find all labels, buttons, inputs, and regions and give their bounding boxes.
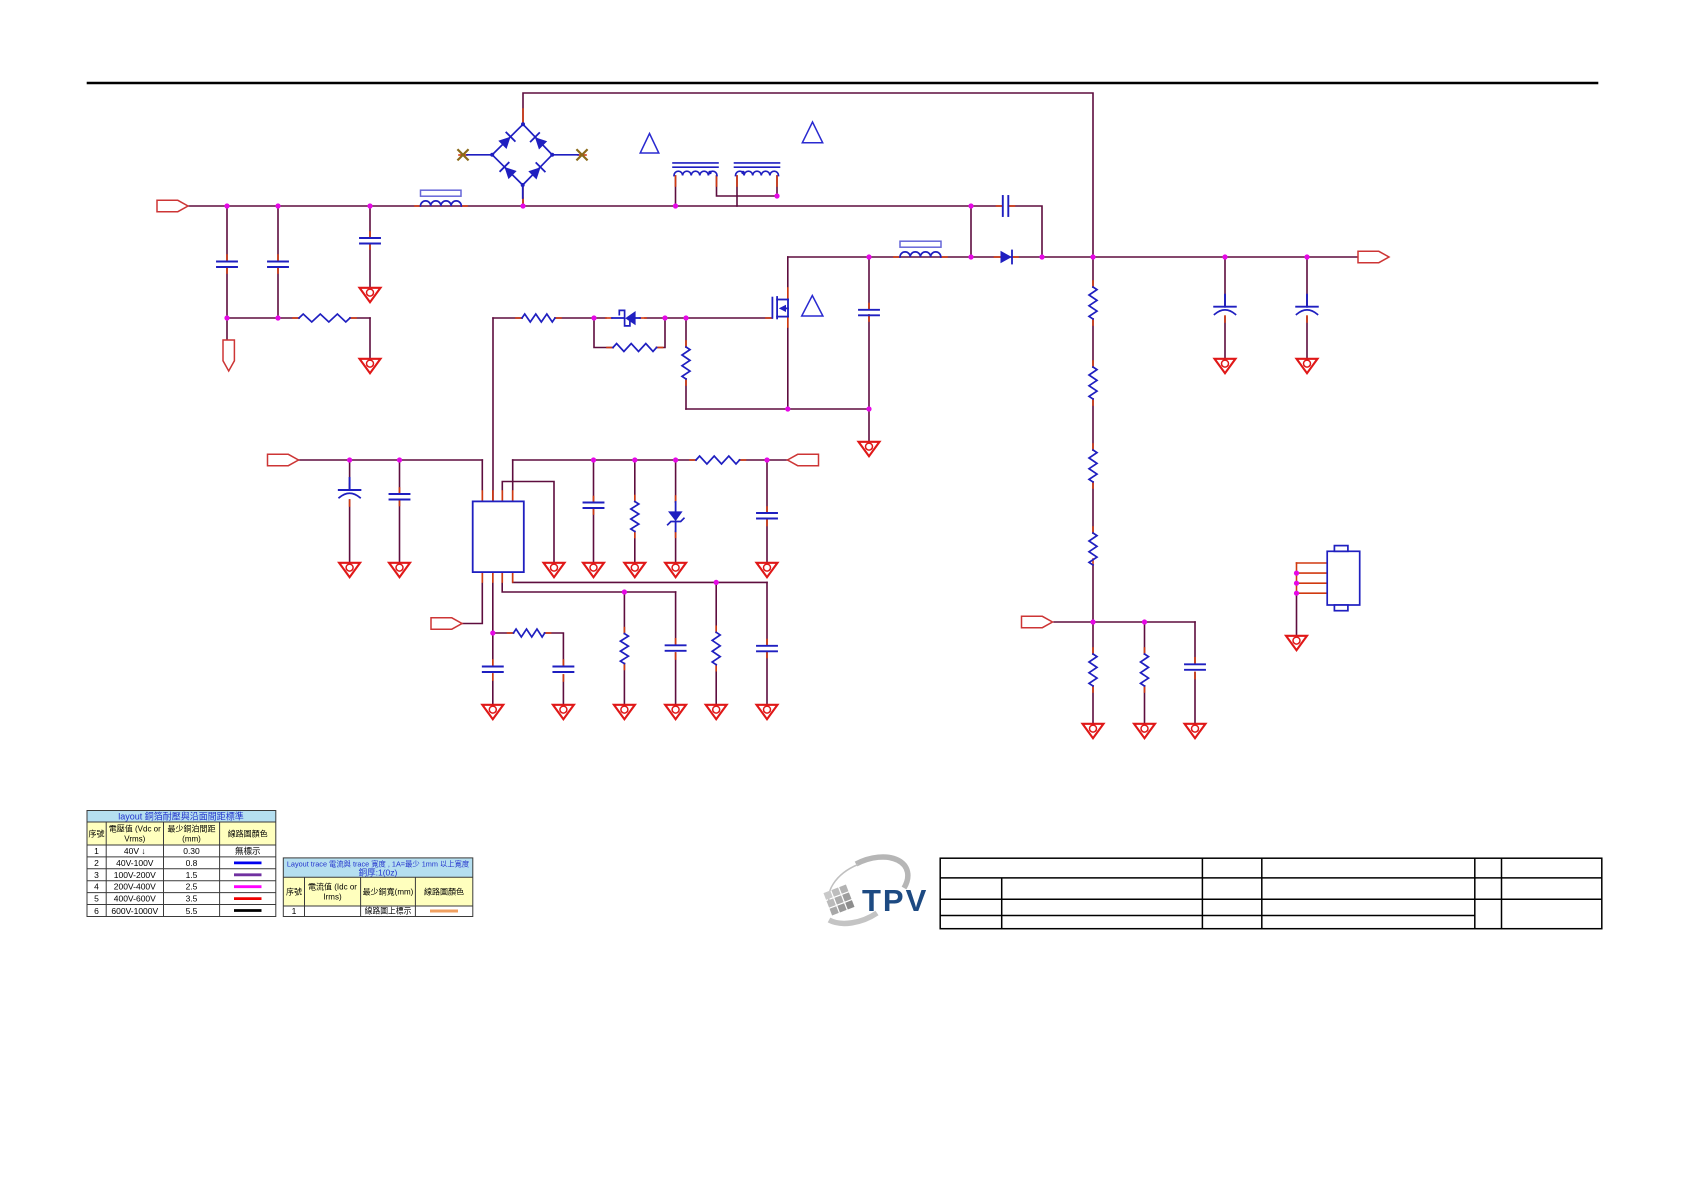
svg-text:Vrms): Vrms) [124,835,145,844]
capacitor C21 out [1214,295,1236,315]
pin stubs IC [481,491,483,501]
wire cap C11 legs [766,582,768,645]
logo swoosh thin [829,865,858,907]
X mark right [577,150,587,160]
ground vcc row 2 [389,563,410,577]
wire comp RC row [493,632,514,634]
connector J1 [1327,546,1360,611]
logo swoosh top [856,857,908,888]
wire IC pin5 to connector [462,572,482,624]
bridge diode D-UR [531,133,548,150]
wire lower AC return [227,317,299,319]
resistor R7 [631,502,639,532]
pin stubs snubber [516,317,522,319]
test triangle A2 [802,122,822,143]
ground C9 [482,705,503,719]
pin stubs input filter [226,255,228,261]
pin stubs out caps [1224,301,1226,307]
bridge diode D-UL [498,132,515,149]
connector VOUT [1358,251,1389,262]
ground C10 [665,705,686,719]
svg-text:100V-200V: 100V-200V [114,870,156,880]
resistor R6 fb [696,456,740,464]
junction dots primary bus [866,254,871,259]
wire gate line [493,317,522,319]
ground C11 [757,705,778,719]
wire choke L4 right leg [776,176,778,196]
connector ACIN [157,200,188,211]
svg-text:Irms): Irms) [323,893,342,902]
junction dots J1 pins [1294,571,1299,576]
wire cap C9 legs [492,633,494,666]
diode D5 [1001,251,1013,264]
svg-text:600V-1000V: 600V-1000V [111,906,158,916]
wire HV divider chain [1092,257,1094,287]
bridge diode D-LL [500,163,517,180]
wire IC pin1 top [481,460,483,501]
junction dots sense row [1090,619,1095,624]
zener ZD1 [612,310,640,326]
pin stubs chokes [675,176,677,186]
wire out cap1 legs [1224,257,1226,307]
resistor R24 [1089,533,1097,565]
ground C8 [757,563,778,577]
bridge vertex dots [490,122,554,187]
ground R7 [624,563,645,577]
ground out cap1 [1215,359,1236,373]
logo swoosh bottom [829,913,877,923]
connector VCC [268,454,299,465]
svg-text:200V-400V: 200V-400V [114,882,156,892]
ground vcc row 1 [339,563,360,577]
connector ACRTN down [223,340,234,371]
title block grid [940,858,1602,929]
wire cap C7 legs [593,460,595,503]
IC U1 [473,501,524,572]
resistor R3 snub [613,344,657,352]
ground AC return [360,359,381,373]
zener ZD2 [668,502,684,531]
logo pixel cube [823,884,854,915]
wire divider to ground [1092,622,1094,654]
pin stubs divider [1092,281,1094,287]
junction dots gate line [224,315,229,320]
wire IC pin8 row [513,572,767,582]
wire source return [686,408,869,410]
svg-text:無標示: 無標示 [235,846,261,856]
svg-text:最少銅寬(mm): 最少銅寬(mm) [363,887,414,897]
wire cap C10 legs [675,592,677,645]
resistor R9 [712,632,720,664]
svg-text:線路圖上標示: 線路圖上標示 [365,906,412,916]
capacitor C6 [390,494,410,500]
table2 grid [283,858,473,917]
wire cap C8 legs [766,460,768,513]
ground divider [1083,724,1104,738]
resistor R2 gate [522,314,555,322]
bridge diode D-LR [528,163,545,180]
resistor R22 [1089,367,1097,399]
ground R11 [1134,724,1155,738]
capacitor C7 [584,503,604,509]
capacitor C4 sense [859,310,879,316]
ground R9 [706,705,727,719]
wire IC pin7 row [502,572,675,592]
test triangle A3 [802,296,823,317]
capacitor C13 [553,667,573,673]
wire long gate feed [492,318,494,501]
svg-text:40V-100V: 40V-100V [116,858,154,868]
capacitor C11 [757,646,777,652]
pin stubs J1 [1297,562,1328,564]
capacitor C3 snubber [1003,196,1009,216]
resistor R10 comp [514,629,545,637]
capacitor C12 [1185,664,1205,670]
ground R8 [614,705,635,719]
wire sense cap legs [868,257,870,310]
svg-text:線路圖顏色: 線路圖顏色 [424,887,464,897]
wire IC gnd pin [502,482,554,563]
wire top loop [523,93,1093,257]
wire main to snub node [970,206,972,257]
ground C13 [553,705,574,719]
svg-text:6: 6 [94,906,99,916]
wire res R9 legs [715,582,717,632]
svg-text:0.8: 0.8 [186,858,198,868]
svg-text:1: 1 [292,906,297,916]
svg-text:電壓值 (Vdc or: 電壓值 (Vdc or [109,824,161,834]
test triangle A1 [640,134,659,154]
pin stubs sense row [1144,648,1146,654]
wire res R8 legs [623,592,625,634]
pin stubs vcc row [349,484,351,490]
svg-text:線路圖顏色: 線路圖顏色 [228,829,268,839]
wire AC main line [189,205,971,207]
wire snubber cap leads [971,205,1003,207]
pin stubs primary [894,256,900,258]
capacitor CY1 [360,238,380,244]
svg-text:序號: 序號 [286,887,302,897]
ground C7 [583,563,604,577]
wire cap C5 legs [349,460,351,490]
border line top [88,82,1597,85]
inductor L2 [900,252,941,257]
capacitor C10 [666,645,686,651]
svg-text:3: 3 [94,870,99,880]
connector ISENSE [1022,616,1053,627]
svg-text:(mm): (mm) [182,835,201,844]
svg-text:2.5: 2.5 [186,882,198,892]
wire zener legs [675,460,677,502]
table1 background [87,811,276,917]
resistor R1 [299,314,350,322]
svg-text:最少銅泊間距: 最少銅泊間距 [168,824,216,834]
wire mosfet source [787,317,789,409]
wire sense row [1054,621,1195,623]
wire gate pulldown [685,318,687,347]
junction dots vcc row [347,457,352,462]
bridge rectifier BD1 [467,124,578,198]
wire cap C6 legs [399,460,401,494]
wire snubber RC loop [594,318,613,348]
junction dots comp rows [490,630,495,635]
wire IC pin6 down [492,572,494,633]
svg-text:400V-600V: 400V-600V [114,894,156,904]
capacitor C22 out [1296,295,1318,315]
wire to down connector [226,318,228,340]
ground IC gnd [544,563,565,577]
wire cap C12 legs [1194,622,1196,664]
wire cap CX1 legs [226,206,228,261]
wire cap CY legs [369,206,371,238]
wire out cap2 legs [1306,257,1308,307]
wire J1 ground [1296,593,1298,635]
choke L3 [674,171,717,175]
svg-text:4: 4 [94,882,99,892]
svg-text:TPV: TPV [862,883,928,918]
junction dots main line [224,203,229,208]
ground ZD2 [665,563,686,577]
mosfet Q1 [772,297,788,318]
svg-text:1.5: 1.5 [186,870,198,880]
svg-text:layout 銅箔耐壓與沿面間距標準: layout 銅箔耐壓與沿面間距標準 [118,811,244,822]
resistor R25 [1089,654,1097,686]
table1 colour swatches [234,863,262,911]
wire bridge bottom to main [522,185,524,206]
wire res R11 legs [1144,622,1146,654]
svg-text:1: 1 [94,846,99,856]
svg-text:銅厚:1(0z): 銅厚:1(0z) [359,868,398,878]
resistor R21 [1089,287,1097,319]
wire res R7 legs [634,460,636,502]
resistor R8 [620,634,628,664]
capacitor C5 vcc [339,478,361,498]
ground out cap2 [1297,359,1318,373]
ground source [859,442,880,456]
ground J1 [1286,636,1307,650]
table1 rows [94,846,260,916]
X mark left [458,150,468,160]
capacitor CX2 [268,262,288,268]
svg-text:0.30: 0.30 [183,846,200,856]
svg-text:5: 5 [94,894,99,904]
capacitor C9 [483,667,503,673]
svg-text:5.5: 5.5 [186,906,198,916]
resistor R11 [1141,654,1149,686]
connector FB left-point [788,454,819,465]
table1 grid [87,811,276,917]
pin stubs bridge [522,109,524,124]
svg-text:電流值 (Idc or: 電流值 (Idc or [308,882,357,892]
svg-text:2: 2 [94,858,99,868]
svg-text:3.5: 3.5 [186,894,198,904]
resistor R4 pulldown [682,347,690,379]
svg-text:序號: 序號 [89,829,105,839]
connector COMP [431,618,462,629]
svg-text:40V ↓: 40V ↓ [124,846,146,856]
wire vcc row left [299,459,483,461]
wire primary bus [788,256,1359,258]
wire cap CX2 legs [277,206,279,261]
capacitor CX1 [217,262,237,268]
choke L4 [736,171,779,175]
pin stubs comp row [508,632,514,634]
table2 background [283,858,473,917]
ground CY [360,288,381,302]
inductor L1 [421,201,462,206]
resistor R23 [1089,450,1097,482]
wire choke L4 left leg [736,176,738,206]
wire mosfet drain [787,257,789,299]
wire to ground GS [868,409,870,441]
junction dot choke jog [774,193,779,198]
ground C12 [1185,724,1206,738]
wire fb row right [512,460,514,501]
wire choke L3 right leg jog [717,176,778,196]
wire choke L3 left leg [675,176,677,206]
capacitor C8 [757,513,777,519]
junction dots source return [785,406,790,411]
